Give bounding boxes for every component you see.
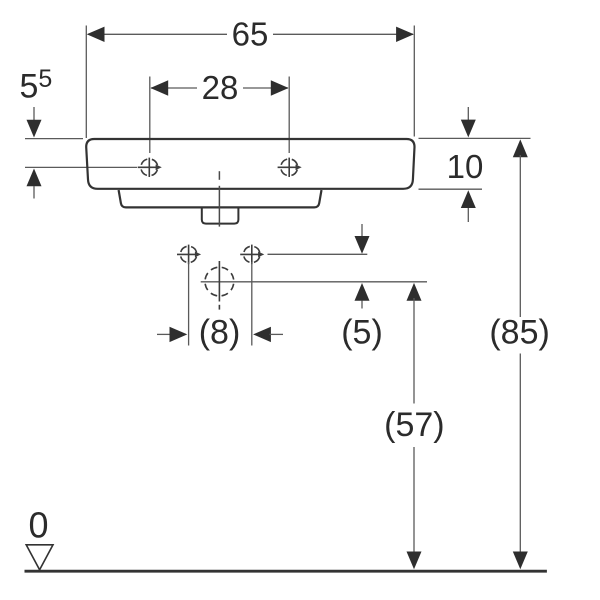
floor datum triangle (26, 545, 53, 570)
dim 28 left arrow (150, 80, 168, 95)
drain hole vertical line (218, 261, 220, 302)
svg-text:28: 28 (202, 69, 239, 106)
dim (8) right extension line (251, 262, 253, 346)
dim 65 right arrow (396, 27, 414, 42)
dim (8) right arrow (253, 327, 271, 342)
dim 10 upper reference line (419, 137, 531, 139)
dim (57) vertical line with arrows (407, 283, 422, 301)
basin centerline dashes (218, 171, 220, 180)
svg-text:(57): (57) (384, 406, 444, 444)
basin main body (86, 139, 414, 189)
dim (5) up arrow (355, 283, 370, 301)
svg-text:(5): (5) (341, 314, 383, 352)
basin drain box (202, 208, 239, 224)
svg-text:55: 55 (20, 65, 53, 105)
faucet hole left (138, 158, 158, 177)
dim (5) down arrow (361, 224, 363, 238)
drain reference line (201, 281, 427, 283)
dim (8) left arrow (157, 333, 171, 335)
dim (85) vertical line with arrows (513, 139, 528, 157)
dim 10 lower reference line (419, 188, 483, 190)
dim 28 left extension line (149, 77, 151, 154)
dim 10 up arrow (461, 190, 476, 208)
dim 5.5 upper reference line (25, 138, 83, 140)
svg-text:(8): (8) (199, 314, 241, 352)
svg-text:0: 0 (29, 505, 49, 546)
mounting hole left (177, 245, 197, 265)
dim 28 right arrow (271, 80, 289, 95)
dim 28 right extension line (288, 77, 290, 154)
dim 65 right extension line (413, 26, 415, 137)
dim 65 dimension line (88, 33, 227, 35)
upper (5) reference line (268, 253, 368, 255)
mounting hole right (240, 245, 260, 265)
dim 5.5 lower reference line (25, 166, 137, 168)
dim 5.5 up arrow (27, 169, 42, 187)
basin lower ledge (119, 190, 322, 207)
dim (8) left extension line (188, 262, 190, 346)
svg-text:65: 65 (232, 16, 269, 53)
floor line (25, 570, 547, 573)
faucet hole right (278, 158, 298, 177)
dim 65 left arrow (87, 27, 105, 42)
svg-text:10: 10 (447, 148, 484, 185)
drain hole dashed circle (205, 267, 234, 296)
svg-text:(85): (85) (489, 314, 549, 352)
dim 65 left extension line (85, 26, 87, 139)
dim 28 dimension line (151, 87, 197, 89)
dim 5.5 down arrow (33, 107, 35, 122)
dim 10 down arrow (467, 107, 469, 122)
